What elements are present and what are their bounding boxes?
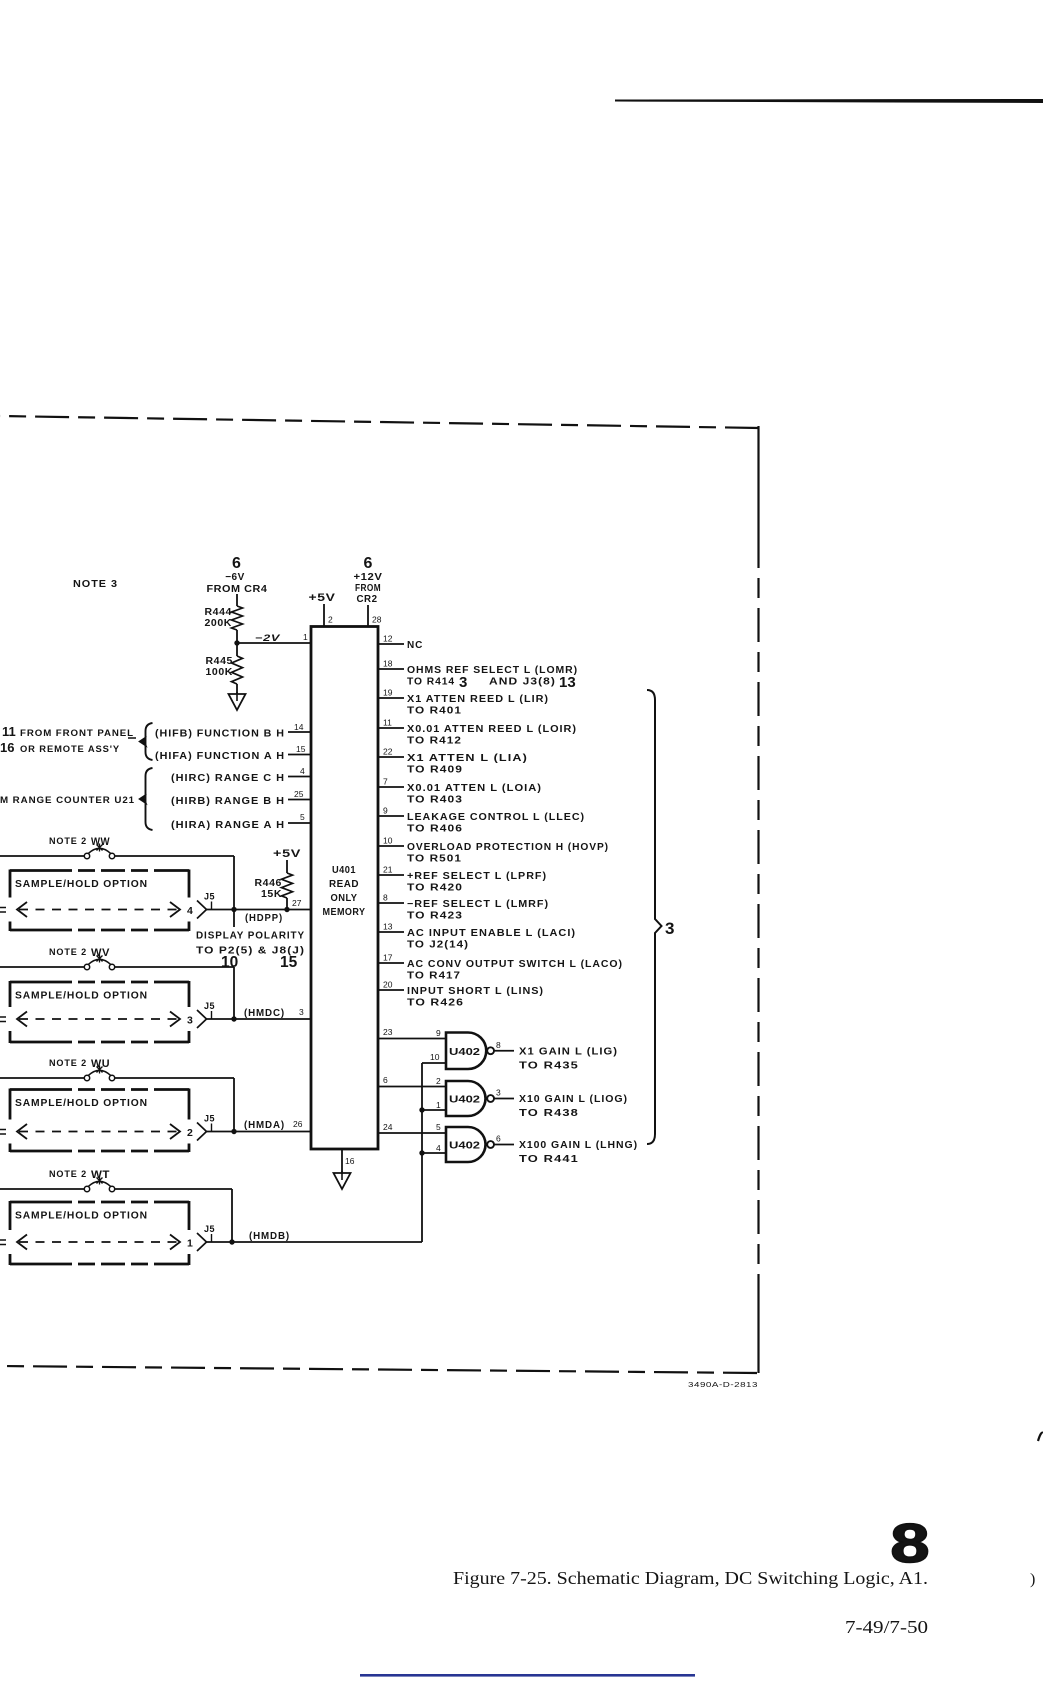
svg-text:TO R403: TO R403 xyxy=(407,795,463,806)
pin 7 signal X0.01 ATTEN L (LOIA) xyxy=(378,786,404,788)
pin 13 signal AC INPUT ENABLE L (LACI) xyxy=(378,931,404,933)
output pin 8 xyxy=(494,1050,514,1052)
pin 22 signal X1 ATTEN L (LIA) xyxy=(378,756,404,758)
pin 21 signal +REF SELECT L (LPRF) xyxy=(378,874,404,876)
svg-text:2: 2 xyxy=(436,1076,441,1086)
wire xyxy=(207,1018,312,1020)
svg-text:X0.01 ATTEN L (LOIA): X0.01 ATTEN L (LOIA) xyxy=(407,783,542,794)
svg-text:20: 20 xyxy=(383,980,393,990)
resistor R446 15K xyxy=(282,873,293,898)
svg-text:U402: U402 xyxy=(449,1094,480,1106)
svg-text:NOTE 2: NOTE 2 xyxy=(49,1058,87,1069)
svg-text:11: 11 xyxy=(383,718,392,728)
wire xyxy=(286,860,288,873)
output pin 6 xyxy=(494,1144,514,1146)
svg-text:9: 9 xyxy=(383,806,388,816)
pin 20 signal INPUT SHORT L (LINS) xyxy=(378,989,404,991)
wire xyxy=(0,855,85,857)
svg-text:J5: J5 xyxy=(204,1224,215,1234)
wire xyxy=(236,630,238,656)
dashed schematic border: right edge xyxy=(757,426,759,534)
svg-text:16: 16 xyxy=(0,740,14,755)
svg-text:13: 13 xyxy=(383,922,393,932)
svg-text:5: 5 xyxy=(436,1122,441,1132)
dashed schematic border: bottom edge xyxy=(0,1366,757,1373)
wire pin 24 to gate pin 5 xyxy=(378,1132,446,1134)
svg-text:FROM: FROM xyxy=(355,583,381,594)
svg-text:X1 ATTEN L (LIA): X1 ATTEN L (LIA) xyxy=(407,753,528,764)
svg-text:SAMPLE/HOLD OPTION: SAMPLE/HOLD OPTION xyxy=(15,1097,148,1109)
wire xyxy=(115,1077,235,1079)
output pin 3 xyxy=(494,1098,514,1100)
svg-text:3: 3 xyxy=(496,1088,501,1098)
svg-text:OHMS REF SELECT L (LOMR): OHMS REF SELECT L (LOMR) xyxy=(407,665,578,676)
svg-text:6: 6 xyxy=(383,1075,388,1085)
jumper WV xyxy=(84,964,89,969)
svg-text:8: 8 xyxy=(383,893,388,903)
svg-text:AC INPUT ENABLE L (LACI): AC INPUT ENABLE L (LACI) xyxy=(407,928,576,939)
wire xyxy=(236,594,238,606)
svg-text:U401: U401 xyxy=(332,865,356,876)
svg-text:21: 21 xyxy=(383,865,393,875)
svg-text:200K: 200K xyxy=(204,617,232,629)
wire xyxy=(233,967,235,1019)
svg-text:NOTE 2: NOTE 2 xyxy=(49,947,87,958)
svg-text:3: 3 xyxy=(187,1015,193,1027)
svg-text:10: 10 xyxy=(383,836,393,846)
svg-text:READ: READ xyxy=(329,879,359,890)
cut-off glyph left edge xyxy=(0,1017,6,1022)
svg-text:+12V: +12V xyxy=(354,572,383,583)
svg-text:FROM FRONT PANEL: FROM FRONT PANEL xyxy=(20,728,134,739)
svg-text:OR REMOTE ASS'Y: OR REMOTE ASS'Y xyxy=(20,744,120,755)
svg-text:X10 GAIN L (LIOG): X10 GAIN L (LIOG) xyxy=(519,1094,628,1105)
wire xyxy=(233,856,235,910)
svg-text:(HMDC): (HMDC) xyxy=(244,1008,285,1019)
svg-text:+5V: +5V xyxy=(309,592,336,604)
svg-text:NOTE 3: NOTE 3 xyxy=(73,579,118,590)
wire xyxy=(115,855,235,857)
svg-text:3: 3 xyxy=(299,1007,304,1017)
big page tab 8 xyxy=(890,1513,929,1574)
wire pin 4 xyxy=(422,1152,446,1154)
wire pin 10 xyxy=(422,1062,446,1064)
pin 11 signal X0.01 ATTEN REED L (LOIR) xyxy=(378,727,404,729)
svg-text:J5: J5 xyxy=(204,1114,215,1124)
svg-text:6: 6 xyxy=(232,555,241,572)
svg-text:15: 15 xyxy=(280,954,298,971)
pin 9 signal LEAKAGE CONTROL L (LLEC) xyxy=(378,815,404,817)
svg-text:12: 12 xyxy=(383,634,393,644)
svg-text:7-49/7-50: 7-49/7-50 xyxy=(845,1617,928,1637)
svg-text:AND J3(8): AND J3(8) xyxy=(489,677,556,688)
junction xyxy=(229,1239,234,1244)
svg-text:U402: U402 xyxy=(449,1140,480,1152)
pin 16 xyxy=(341,1149,343,1174)
bracket group ref 3 xyxy=(647,690,662,1144)
svg-text:NOTE 2: NOTE 2 xyxy=(49,1169,87,1180)
svg-text:8: 8 xyxy=(890,1513,929,1574)
svg-text:17: 17 xyxy=(383,953,393,963)
svg-text:23: 23 xyxy=(383,1027,393,1037)
svg-text:TO R423: TO R423 xyxy=(407,911,463,922)
resistor R444 200K xyxy=(232,606,243,630)
svg-text:OVERLOAD PROTECTION H (HOVP): OVERLOAD PROTECTION H (HOVP) xyxy=(407,842,609,853)
stray mark right edge xyxy=(1038,1433,1043,1441)
svg-text:24: 24 xyxy=(383,1122,393,1132)
sample/hold option box 2 xyxy=(10,982,189,1042)
svg-text:X1 GAIN L (LIG): X1 GAIN L (LIG) xyxy=(519,1046,618,1057)
svg-text:14: 14 xyxy=(294,722,304,732)
svg-text:4: 4 xyxy=(436,1143,441,1153)
wire xyxy=(207,909,312,911)
svg-text:2: 2 xyxy=(328,615,333,625)
wire xyxy=(233,1078,235,1132)
svg-text:MEMORY: MEMORY xyxy=(323,907,366,918)
svg-text:ONLY: ONLY xyxy=(331,893,358,904)
svg-text:(HIRC) RANGE C H: (HIRC) RANGE C H xyxy=(171,773,285,784)
svg-text:19: 19 xyxy=(383,688,393,698)
svg-text:TO R426: TO R426 xyxy=(407,998,464,1009)
ground xyxy=(341,1171,343,1180)
net HMDB vertical xyxy=(421,1063,423,1242)
svg-text:6: 6 xyxy=(496,1134,501,1144)
svg-text:13: 13 xyxy=(559,674,576,691)
wire pin 6 to gate pin 2 xyxy=(378,1086,446,1088)
brace front panel inputs xyxy=(146,723,153,760)
svg-text:2: 2 xyxy=(187,1127,193,1139)
svg-text:U402: U402 xyxy=(449,1046,480,1058)
pin 10 signal OVERLOAD PROTECTION H (HOVP) xyxy=(378,845,404,847)
wire xyxy=(115,1188,233,1190)
wire xyxy=(207,1241,423,1243)
svg-text:15K: 15K xyxy=(261,888,282,900)
svg-text:25: 25 xyxy=(294,789,304,799)
node -2V xyxy=(234,640,239,645)
pin 12 signal NC xyxy=(378,643,404,645)
sample/hold option box 4 xyxy=(10,1202,189,1264)
svg-text:SAMPLE/HOLD OPTION: SAMPLE/HOLD OPTION xyxy=(15,878,148,890)
svg-text:3: 3 xyxy=(665,919,674,938)
svg-text:+REF SELECT L (LPRF): +REF SELECT L (LPRF) xyxy=(407,871,547,882)
svg-text:3: 3 xyxy=(459,674,467,691)
svg-text:9: 9 xyxy=(436,1028,441,1038)
svg-text:(HIFA) FUNCTION A H: (HIFA) FUNCTION A H xyxy=(155,751,285,762)
pin 17 signal AC CONV OUTPUT SWITCH L (LACO) xyxy=(378,962,404,964)
svg-text:−REF SELECT L (LMRF): −REF SELECT L (LMRF) xyxy=(407,899,549,910)
svg-text:11: 11 xyxy=(2,724,16,739)
svg-text:TO R414: TO R414 xyxy=(407,677,455,688)
svg-text:6: 6 xyxy=(364,555,373,572)
jumper WT xyxy=(84,1186,89,1191)
svg-text:(HDPP): (HDPP) xyxy=(245,913,283,924)
svg-text:(HIFB) FUNCTION B H: (HIFB) FUNCTION B H xyxy=(155,729,285,740)
blue rule bottom xyxy=(360,1674,695,1677)
svg-text:TO R406: TO R406 xyxy=(407,824,463,835)
svg-text:(HIRA) RANGE A H: (HIRA) RANGE A H xyxy=(171,820,285,831)
svg-text:1: 1 xyxy=(187,1238,193,1250)
svg-text:26: 26 xyxy=(293,1119,303,1129)
svg-text:(HMDA): (HMDA) xyxy=(244,1120,285,1131)
wire xyxy=(0,966,85,968)
svg-text:22: 22 xyxy=(383,747,393,757)
svg-text:X100 GAIN L (LHNG): X100 GAIN L (LHNG) xyxy=(519,1140,638,1151)
svg-text:(HMDB): (HMDB) xyxy=(249,1231,290,1242)
junction xyxy=(231,1129,236,1134)
svg-text:INPUT SHORT L (LINS): INPUT SHORT L (LINS) xyxy=(407,986,544,997)
IC U401 read only memory xyxy=(311,627,378,1150)
svg-text:Figure 7-25. Schematic Diagra: Figure 7-25. Schematic Diagram, DC Switc… xyxy=(453,1568,928,1588)
cut-off glyph left edge xyxy=(0,1240,6,1245)
svg-text:TO R441: TO R441 xyxy=(519,1154,579,1165)
svg-text:TO R435: TO R435 xyxy=(519,1060,579,1071)
svg-text:TO R412: TO R412 xyxy=(407,736,462,747)
pin 18 signal OHMS REF SELECT L (LOMR) xyxy=(378,668,404,670)
svg-text:TO R409: TO R409 xyxy=(407,765,463,776)
svg-text:4: 4 xyxy=(187,905,193,917)
svg-text:15: 15 xyxy=(296,744,306,754)
svg-text:(HIRB) RANGE B H: (HIRB) RANGE B H xyxy=(171,796,285,807)
nand U402c xyxy=(446,1127,486,1162)
svg-text:−6V: −6V xyxy=(225,572,245,583)
svg-text:3490A-D-2813: 3490A-D-2813 xyxy=(688,1380,758,1389)
heavy rule top right xyxy=(615,99,1043,103)
junction xyxy=(231,907,236,912)
wire xyxy=(207,1131,312,1133)
wire pin 1 xyxy=(422,1109,446,1111)
wire xyxy=(0,1077,85,1079)
nand U402b xyxy=(446,1081,486,1116)
svg-text:AC CONV OUTPUT SWITCH L (LACO): AC CONV OUTPUT SWITCH L (LACO) xyxy=(407,959,623,970)
svg-text:SAMPLE/HOLD OPTION: SAMPLE/HOLD OPTION xyxy=(15,1210,148,1222)
svg-text:TO R438: TO R438 xyxy=(519,1108,579,1119)
svg-text:SAMPLE/HOLD OPTION: SAMPLE/HOLD OPTION xyxy=(15,990,148,1002)
wire pin 23 to gate pin 9 xyxy=(378,1038,446,1040)
svg-text:TO R501: TO R501 xyxy=(407,854,462,865)
wire to display polarity xyxy=(233,910,235,928)
sample/hold option box 1 xyxy=(10,871,189,931)
cut-off glyph left edge xyxy=(0,1130,6,1135)
svg-text:J5: J5 xyxy=(204,1001,215,1011)
svg-text:100K: 100K xyxy=(205,666,233,678)
junction xyxy=(419,1107,424,1112)
wire xyxy=(231,1189,233,1242)
resistor R445 100K xyxy=(232,656,243,684)
svg-text:8: 8 xyxy=(496,1040,501,1050)
svg-text:DISPLAY POLARITY: DISPLAY POLARITY xyxy=(196,931,305,942)
svg-text:CR2: CR2 xyxy=(357,594,378,605)
svg-text:28: 28 xyxy=(372,615,382,625)
svg-text:4: 4 xyxy=(300,766,305,776)
pin 8 signal −REF SELECT L (LMRF) xyxy=(378,902,404,904)
svg-text:NC: NC xyxy=(407,640,423,651)
junction xyxy=(419,1150,424,1155)
svg-text:1: 1 xyxy=(436,1100,441,1110)
tick to brace xyxy=(128,737,136,739)
junction xyxy=(284,907,289,912)
svg-text:TO R401: TO R401 xyxy=(407,706,462,717)
svg-text:+5V: +5V xyxy=(273,848,301,860)
svg-text:NOTE 2: NOTE 2 xyxy=(49,836,87,847)
brace range counter inputs xyxy=(146,768,153,830)
wire xyxy=(0,1188,85,1190)
svg-text:): ) xyxy=(1030,1571,1035,1588)
svg-text:M RANGE COUNTER U21: M RANGE COUNTER U21 xyxy=(0,795,135,806)
sample/hold option box 3 xyxy=(10,1090,189,1152)
wire to pin 1 xyxy=(237,642,311,644)
nand U402a xyxy=(446,1033,486,1070)
svg-text:1: 1 xyxy=(303,632,308,642)
wire pin 2 xyxy=(323,604,325,627)
jumper WU xyxy=(84,1075,89,1080)
svg-text:10: 10 xyxy=(430,1052,440,1062)
svg-text:5: 5 xyxy=(300,812,305,822)
wire xyxy=(115,966,235,968)
svg-text:10: 10 xyxy=(221,954,238,971)
svg-text:FROM CR4: FROM CR4 xyxy=(207,584,268,595)
svg-text:TO R420: TO R420 xyxy=(407,883,463,894)
cut-off glyph left edge xyxy=(0,908,6,913)
junction xyxy=(231,1016,236,1021)
wire xyxy=(236,684,238,694)
svg-text:X0.01 ATTEN REED L (LOIR): X0.01 ATTEN REED L (LOIR) xyxy=(407,724,577,735)
svg-text:16: 16 xyxy=(345,1156,355,1166)
svg-text:7: 7 xyxy=(383,777,388,787)
svg-text:TO R417: TO R417 xyxy=(407,971,461,982)
svg-text:18: 18 xyxy=(383,659,393,669)
dashed schematic border: top edge xyxy=(0,416,759,428)
svg-text:J5: J5 xyxy=(204,892,215,902)
jumper WW xyxy=(84,853,89,858)
svg-text:27: 27 xyxy=(292,898,302,908)
svg-text:TO J2(14): TO J2(14) xyxy=(407,940,469,951)
ground xyxy=(236,692,238,701)
svg-text:LEAKAGE CONTROL L (LLEC): LEAKAGE CONTROL L (LLEC) xyxy=(407,812,585,823)
pin 19 signal X1 ATTEN REED L (LIR) xyxy=(378,697,404,699)
wire pin 28 xyxy=(367,605,369,627)
svg-text:X1 ATTEN REED L (LIR): X1 ATTEN REED L (LIR) xyxy=(407,694,549,705)
